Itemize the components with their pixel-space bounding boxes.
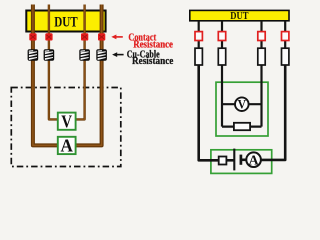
wire from battery to ammeter circle: [242, 159, 247, 162]
cable resistance resistor 1 (right): [195, 48, 202, 65]
ammeter series resistor (right): [219, 157, 227, 165]
contact resistance rect 2 (right): [218, 32, 225, 41]
ammeter enclosure (green, right): [211, 150, 272, 174]
dash-dot instrument enclosure (left): [11, 88, 121, 167]
contact resistance rect 1 (right): [195, 32, 202, 41]
wire P4 lower run with bend into ammeter loop: [261, 65, 285, 160]
contact resistance label text: [128, 32, 173, 50]
Cu-cable resistance coil 2: [44, 49, 55, 60]
wire from resistor to battery: [227, 159, 234, 162]
Cu-cable resistance coil 1: [28, 49, 39, 60]
contact resistance rect 3 (right): [258, 32, 265, 41]
voltmeter V box (left): [58, 111, 76, 131]
wire P2 upper segments (sense lead): [221, 21, 223, 49]
svg-text:A: A: [249, 154, 260, 169]
ammeter circle A (right): [246, 152, 261, 168]
wire W3 (thin sense lead, right): [75, 5, 84, 120]
DUT box (left): [26, 11, 105, 32]
Cu-cable resistance coil 4: [96, 49, 107, 60]
voltmeter enclosure (green, right): [216, 82, 268, 136]
voltmeter circle V (right): [235, 97, 249, 112]
wire P4 upper segments (force lead): [284, 21, 286, 49]
ammeter A box (left): [58, 136, 76, 156]
svg-text:Resistance: Resistance: [132, 56, 174, 67]
battery source: long plate: [233, 149, 235, 171]
cable resistance resistor 4 (right): [282, 48, 289, 65]
voltmeter branch wire (right): [222, 103, 262, 105]
contact resistance label arrow (red): [111, 35, 123, 40]
Cu-cable resistance coil 3: [79, 49, 90, 60]
wire W4 (thick force lead, right): [76, 5, 102, 146]
svg-text:A: A: [61, 136, 73, 156]
wire P3 upper segments (sense lead): [260, 21, 262, 49]
contact resistance rect 4 (right): [282, 32, 289, 41]
cable resistance resistor 3 (right): [258, 48, 265, 65]
voltmeter internal resistor (right): [234, 123, 250, 130]
Cu-cable resistance label arrow (black): [112, 52, 124, 57]
contact resistance mark 3: [81, 33, 88, 40]
svg-text:V: V: [61, 111, 72, 131]
wire W1 (thick force lead, left): [33, 5, 58, 146]
wire W2 (thin sense lead, left): [49, 5, 58, 120]
battery source: short plate: [240, 155, 243, 165]
cable resistance resistor 2 (right): [218, 48, 225, 65]
contact resistance mark 2: [45, 33, 52, 40]
wire P1 upper segments (right diagram, force lead): [198, 21, 200, 49]
wire P2 lower run to voltmeter loop: [221, 65, 223, 127]
svg-text:DUT: DUT: [230, 10, 249, 22]
voltmeter loop bottom wire (right): [222, 125, 262, 127]
wire P1 lower run with bend into ammeter loop: [199, 65, 219, 161]
svg-text:DUT: DUT: [54, 14, 78, 30]
svg-text:V: V: [238, 97, 247, 112]
DUT box (right): [190, 10, 289, 22]
Cu-cable resistance label text: [127, 49, 174, 67]
contact resistance mark 4: [98, 33, 105, 40]
contact resistance mark 1: [29, 33, 36, 40]
wire P3 lower run to voltmeter loop: [260, 65, 262, 127]
